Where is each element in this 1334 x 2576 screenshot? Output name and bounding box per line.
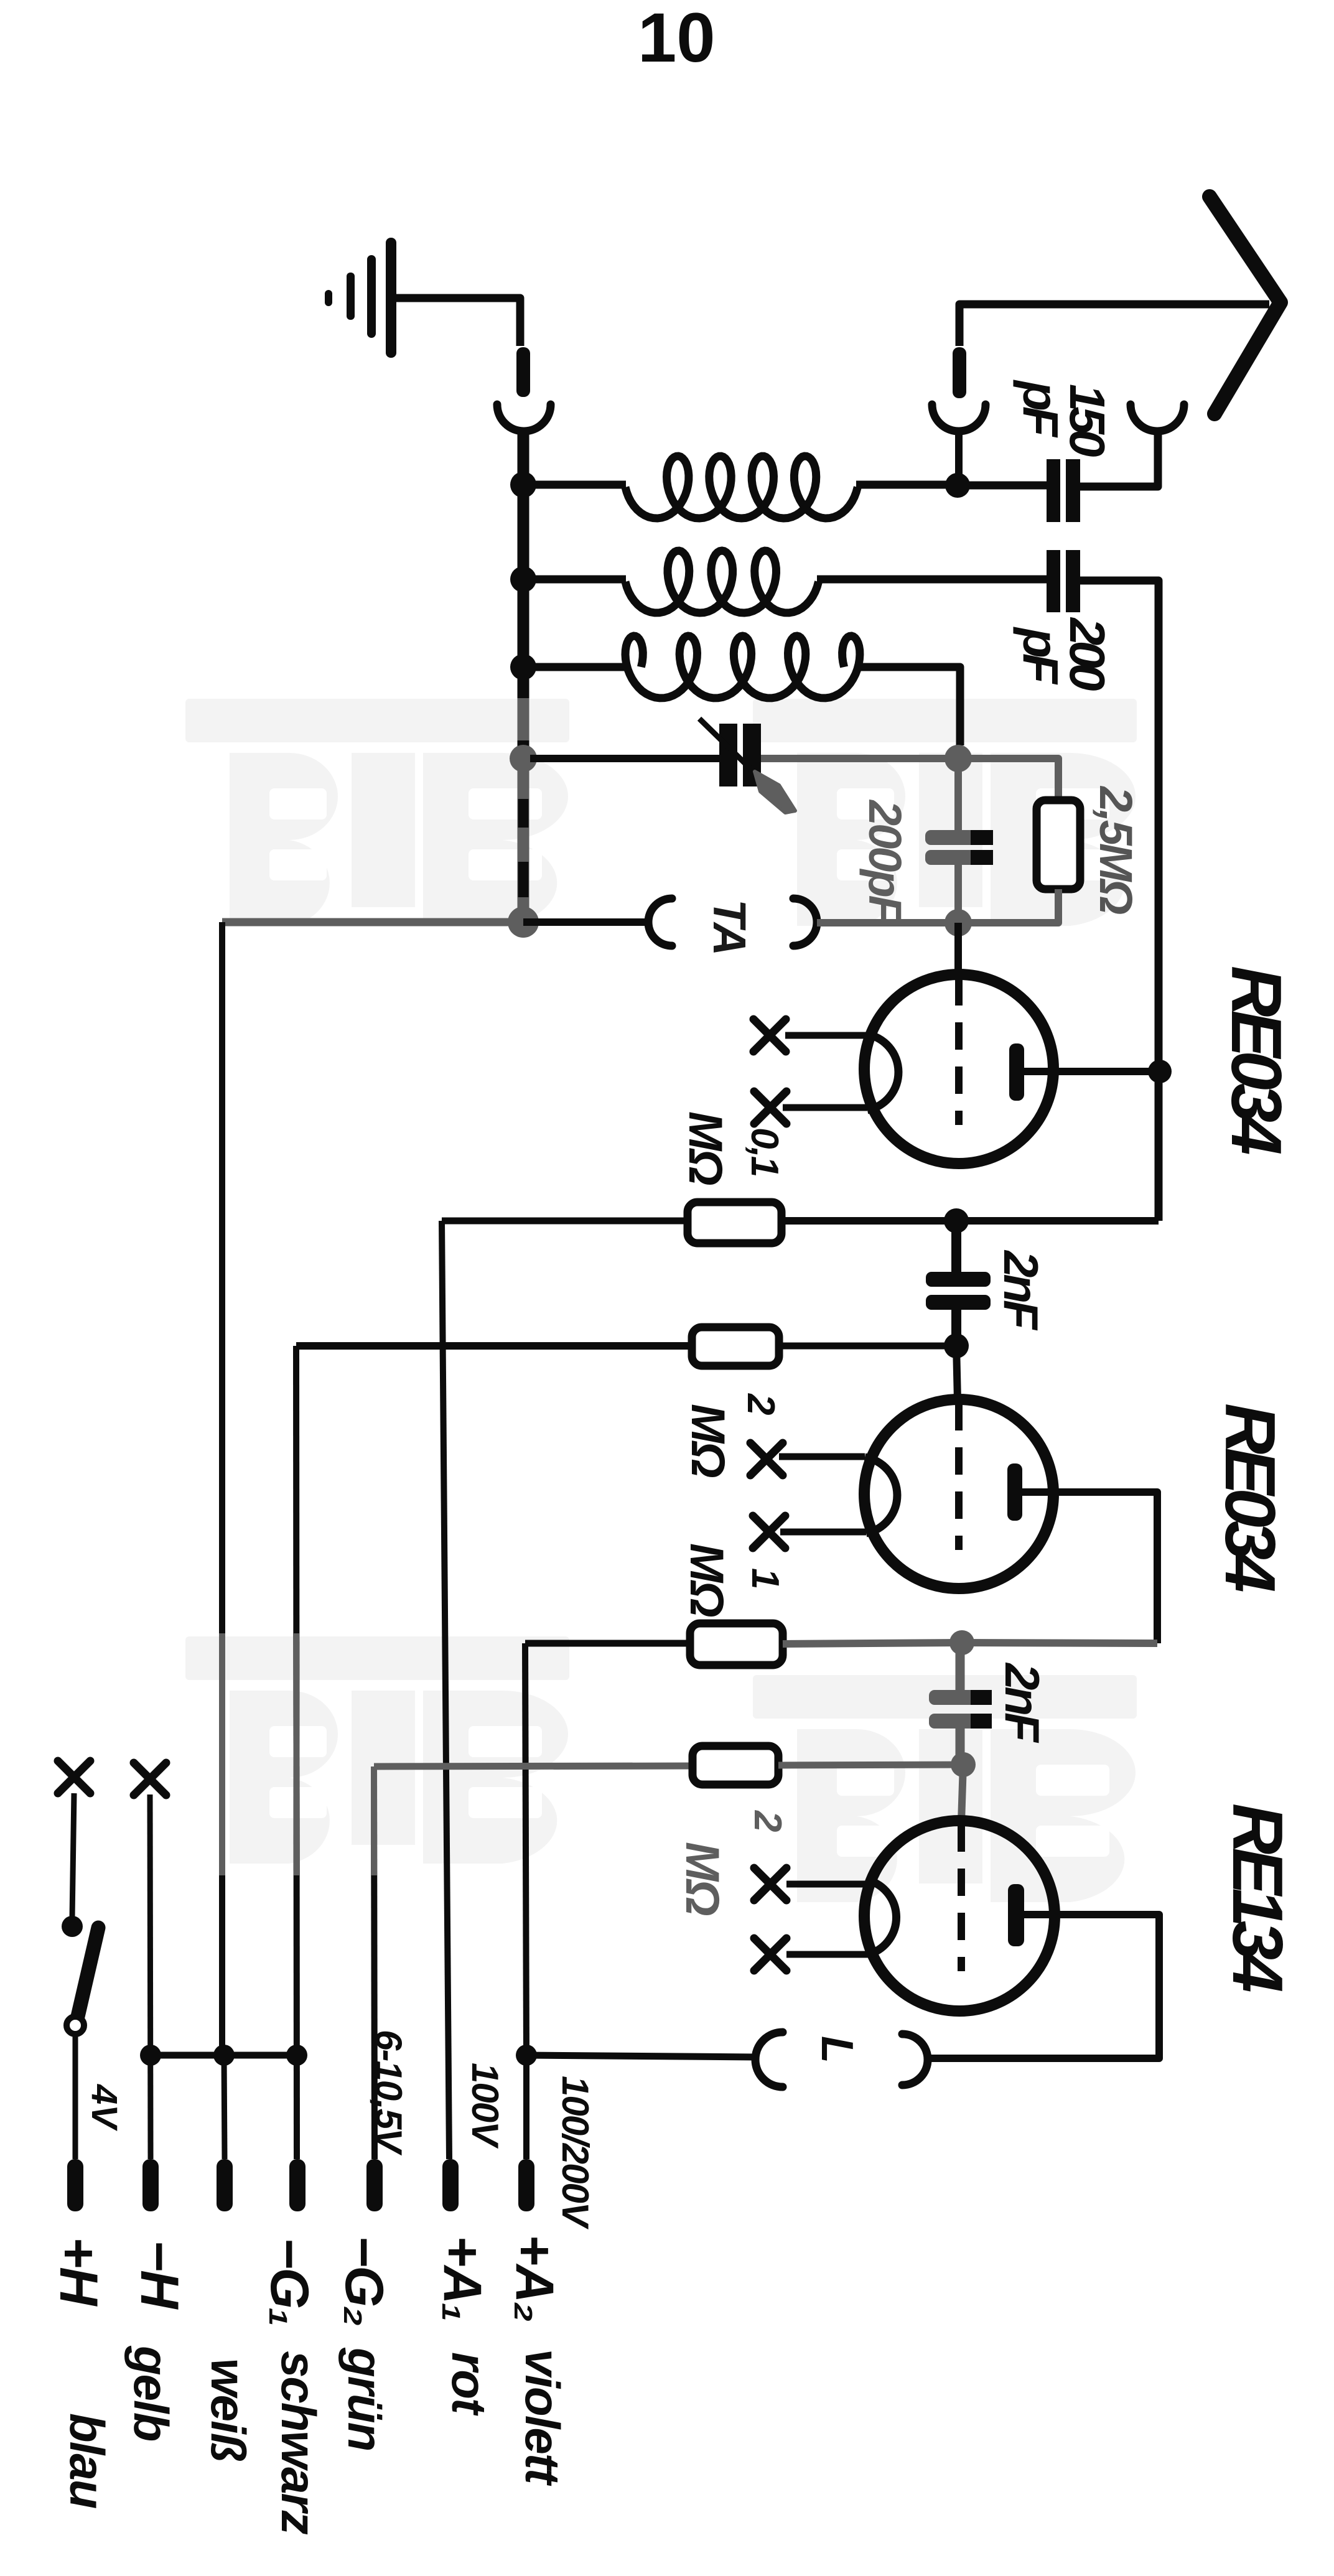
- wire switch to +H pin: [73, 2035, 78, 2159]
- L jack right contact: [902, 2034, 928, 2085]
- x mark V2 filament b: [753, 1516, 785, 1548]
- junction node V1 anode: [1148, 1060, 1172, 1083]
- grid bottom node (gray): [945, 909, 972, 936]
- x mark -H supply: [134, 1763, 166, 1795]
- tube V3 RE134 envelope: [864, 1821, 1055, 2011]
- wire ground to antenna-bus plug: [396, 298, 520, 346]
- junction node grid V3 (gray): [951, 1752, 976, 1777]
- junction node V2 anode row (gray): [949, 1630, 974, 1655]
- x mark V3 filament a: [754, 1868, 786, 1900]
- wire node to 2nF: [951, 1221, 961, 1273]
- svg-text:−G₂: −G₂: [334, 2236, 394, 2325]
- resistor 1MOhm (V2 anode load): [690, 1623, 783, 1665]
- resistor 2MOhm (V2 grid leak): [692, 1327, 779, 1366]
- junction node +A2: [516, 2045, 537, 2066]
- tube V1 anode plate: [1009, 1043, 1024, 1101]
- svg-text:gelb: gelb: [124, 2345, 179, 2441]
- svg-text:+H: +H: [49, 2237, 108, 2307]
- svg-text:0,1: 0,1: [743, 1127, 786, 1176]
- wire riser corner to resistor 0,1M: [442, 1218, 688, 1225]
- svg-text:L: L: [812, 2036, 862, 2063]
- bus junction node TA row (gray): [508, 907, 539, 938]
- resistor 2MOhm (V3 grid leak): [693, 1746, 778, 1785]
- tube V3 filament wire b: [786, 1951, 870, 1958]
- tube V3 filament wire a: [786, 1881, 869, 1888]
- wire +A2 node to L jack: [526, 2055, 756, 2057]
- svg-text:violett: violett: [515, 2349, 570, 2486]
- wire V3 anode right/down to L jack: [928, 1915, 1159, 2058]
- L jack left contact: [755, 2032, 783, 2087]
- junction node -H: [140, 2045, 161, 2066]
- svg-text:pF: pF: [1013, 627, 1068, 685]
- resistor 0,1MOhm: [688, 1202, 781, 1243]
- svg-text:MΩ: MΩ: [681, 1404, 734, 1477]
- svg-text:2nF: 2nF: [995, 1662, 1050, 1743]
- bus junction node coil3: [510, 654, 536, 680]
- x mark V1 filament a: [753, 1019, 786, 1052]
- wire weiss junction to pin: [224, 2055, 225, 2159]
- heater common wire: [151, 2052, 297, 2059]
- wire -G2 riser: [374, 1766, 375, 2159]
- x mark V1 filament b: [754, 1091, 786, 1124]
- svg-text:200pF: 200pF: [859, 799, 911, 925]
- svg-text:2: 2: [746, 1810, 789, 1832]
- tube V1 filament arc: [866, 1034, 898, 1110]
- svg-text:4V: 4V: [84, 2084, 124, 2131]
- tube V2 filament arc: [865, 1457, 897, 1533]
- svg-text:schwarz: schwarz: [271, 2351, 326, 2535]
- tube V2 RE034 envelope: [864, 1399, 1053, 1589]
- wire V1 anode to right bus: [1024, 1068, 1160, 1075]
- wire grid V2 row: [296, 1342, 692, 1350]
- svg-text:rot: rot: [442, 2352, 497, 2416]
- wire -G1 riser: [296, 1346, 297, 2159]
- svg-text:100V: 100V: [464, 2063, 506, 2149]
- wire node to V2 anode corner (gray): [962, 1643, 1157, 1643]
- bus junction node varcap (gray): [510, 745, 537, 772]
- bus junction node coil2: [510, 566, 536, 592]
- wire -H column: [150, 1794, 151, 2159]
- svg-text:pF: pF: [1013, 380, 1068, 438]
- wire bus node to TA jack: [523, 918, 647, 926]
- tube V3 filament arc: [869, 1880, 897, 1954]
- svg-text:MΩ: MΩ: [679, 1111, 732, 1185]
- svg-text:RE034: RE034: [1216, 966, 1295, 1154]
- watermark BTB row2 col1: [185, 1636, 569, 1680]
- wire coil1 node to 150pF: [958, 482, 1047, 490]
- wire to tube2 grid: [956, 1346, 958, 1401]
- wire grid node down (gray): [954, 758, 962, 830]
- svg-text:+A₁: +A₁: [432, 2236, 492, 2321]
- watermark BTB row1 col2: [753, 699, 1137, 742]
- svg-text:6-10,5V: 6-10,5V: [368, 2030, 409, 2156]
- x mark +H supply: [58, 1761, 90, 1793]
- wire V2 anode right and down: [1022, 1492, 1157, 1643]
- jack socket on main bus: [497, 404, 551, 431]
- left riser TA column: [219, 922, 225, 2055]
- tube V1 filament wire a: [785, 1032, 866, 1039]
- wire varcap to grid node (gray): [761, 755, 958, 762]
- TA jack right contact: [793, 898, 817, 946]
- svg-text:1: 1: [744, 1568, 786, 1589]
- wire TA row from left riser (gray): [222, 918, 523, 926]
- svg-text:−H: −H: [129, 2240, 189, 2310]
- svg-text:grün: grün: [338, 2347, 393, 2450]
- grid node junction (gray): [945, 745, 972, 772]
- wire resistor to anode junction: [781, 1217, 1159, 1225]
- wire jack1 to coil1 node: [955, 428, 963, 485]
- wire 2M2 to grid node (gray): [778, 1765, 963, 1765]
- junction node weiss: [213, 2045, 235, 2066]
- svg-text:2nF: 2nF: [994, 1249, 1048, 1331]
- tube V1 grid (dashed): [955, 978, 963, 1125]
- svg-text:blau: blau: [60, 2413, 114, 2509]
- capacitor 150pF: [1047, 459, 1060, 522]
- inductor coil L2: [530, 576, 626, 584]
- svg-text:100/200V: 100/200V: [554, 2076, 596, 2230]
- tube V2 filament wire b: [780, 1529, 866, 1536]
- svg-text:MΩ: MΩ: [676, 1842, 729, 1915]
- svg-text:2,5MΩ: 2,5MΩ: [1090, 785, 1142, 915]
- svg-text:RE034: RE034: [1210, 1403, 1289, 1592]
- wire 1M to anode node (gray): [783, 1643, 962, 1644]
- svg-text:MΩ: MΩ: [680, 1543, 733, 1617]
- svg-text:+A₂: +A₂: [505, 2234, 564, 2321]
- antenna jack 2 (spare): [1131, 404, 1184, 431]
- svg-text:2: 2: [739, 1393, 782, 1415]
- svg-text:RE134: RE134: [1218, 1803, 1297, 1992]
- svg-text:TA: TA: [704, 899, 755, 954]
- wire 200pF to right bus: [1080, 581, 1159, 1221]
- grid leak resistor 2,5MOhm branch: [958, 758, 1058, 800]
- capacitor 2nF (V1-V2 coupling): [926, 1272, 991, 1287]
- junction node 150pF: [945, 473, 970, 498]
- tube V2 filament wire a: [779, 1454, 865, 1460]
- wire node down to 2nF2 (gray): [956, 1643, 965, 1691]
- TA jack left contact: [648, 898, 672, 946]
- tube V1 filament wire b: [783, 1104, 867, 1111]
- wire TA to grid bottom node (gray): [817, 919, 958, 926]
- wire -G2 riser corner to 2M2 (gray): [374, 1766, 693, 1766]
- capacitor 2nF (V2-V3 coupling): [929, 1690, 992, 1705]
- inductor coil L3 (loops below): [530, 663, 626, 671]
- x mark V3 filament b: [754, 1938, 786, 1971]
- svg-text:10: 10: [638, 0, 716, 77]
- wire grid node to tube1: [954, 923, 962, 976]
- junction node grid V2: [944, 1333, 969, 1358]
- terminal pins: [67, 2159, 83, 2211]
- bus junction node coil1: [510, 472, 536, 498]
- wire +A1 riser: [442, 1221, 449, 2159]
- variable capacitor 200pF: [719, 724, 737, 786]
- junction node -G1: [286, 2045, 307, 2066]
- wire +A2 junction to pin: [523, 2055, 529, 2159]
- switch contact dot: [62, 1916, 83, 1937]
- wire bus to variable capacitor: [530, 755, 719, 762]
- wire to tube3 grid (gray): [961, 1765, 963, 1822]
- tube V1 RE034 envelope: [864, 974, 1053, 1164]
- antenna jack 1: [932, 404, 986, 431]
- wire +H column to switch: [72, 1793, 74, 1918]
- tube V3 grid (dashed): [958, 1824, 965, 1971]
- junction node 2nF top: [944, 1208, 969, 1233]
- watermark BTB row1 col1: [185, 699, 569, 742]
- svg-text:−G₁: −G₁: [259, 2238, 319, 2325]
- inductor coil L1: [530, 481, 626, 489]
- x mark V2 filament a: [750, 1443, 783, 1475]
- wire antenna lead: [959, 304, 1269, 346]
- switch pivot: [67, 2017, 84, 2034]
- antenna: [1210, 197, 1280, 414]
- watermark BTB row2 col2: [753, 1675, 1137, 1719]
- svg-text:weiß: weiß: [201, 2358, 256, 2462]
- capacitor 200pF (antenna series): [1047, 550, 1060, 612]
- tube V2 grid (dashed): [955, 1403, 963, 1550]
- tube V3 anode plate: [1008, 1884, 1024, 1946]
- main bus wire (thick): [518, 429, 529, 698]
- ground: [386, 238, 396, 358]
- wire 150pF to jack2: [1080, 433, 1158, 487]
- plug pin into bus jack: [516, 347, 530, 397]
- wire +A2 riser top: [525, 1643, 526, 2055]
- tube V2 anode plate: [1007, 1463, 1022, 1521]
- wire riser to 1M resistor: [525, 1640, 690, 1647]
- antenna plug pin: [953, 347, 966, 398]
- grid capacitor 200pF: [925, 830, 993, 845]
- switch lever: [77, 1928, 98, 2019]
